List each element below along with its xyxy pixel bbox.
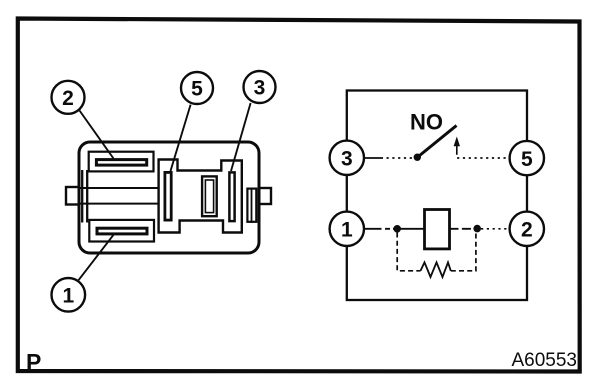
leader to terminal 2	[80, 111, 114, 159]
switch blade NO	[417, 126, 457, 159]
actuation arrow	[456, 143, 458, 153]
wire node1 to junction A	[365, 228, 382, 230]
wire coil to junction B	[450, 228, 478, 230]
center block outline	[159, 160, 242, 233]
relay body	[79, 142, 259, 253]
callout circle 3	[244, 71, 276, 103]
node 2	[510, 212, 544, 246]
center plate inner	[205, 180, 213, 213]
inner rib vertical lines	[81, 170, 83, 223]
switch pivot junction	[414, 154, 421, 161]
svg-text:A60553: A60553	[511, 350, 577, 371]
leader to terminal 1	[79, 235, 114, 280]
channel lines	[79, 187, 159, 189]
terminal 2 slot	[89, 152, 154, 172]
leader to terminal 5	[171, 105, 191, 171]
wire node3 to pivot	[365, 157, 384, 159]
resistor	[421, 262, 451, 277]
svg-text:5: 5	[191, 78, 203, 101]
wire resistor to junction B	[451, 232, 476, 270]
node 5	[510, 141, 544, 175]
terminal 3 slot	[229, 172, 234, 221]
svg-text:3: 3	[341, 148, 353, 171]
svg-text:2: 2	[62, 87, 74, 110]
wire arrow corner to node5	[457, 153, 510, 159]
wire junction A down to resistor	[397, 233, 420, 271]
callout circle 5	[181, 72, 213, 104]
junction A	[393, 225, 401, 233]
leader to terminal 3	[231, 103, 251, 171]
center plate outer	[202, 176, 217, 216]
svg-text:5: 5	[521, 148, 533, 171]
relay left tab	[66, 187, 79, 205]
terminal 2 blade	[96, 160, 146, 166]
callout circle 1	[52, 278, 86, 312]
svg-text:1: 1	[62, 285, 74, 308]
terminal 1 slot	[89, 220, 154, 242]
right inner latch	[247, 189, 256, 222]
svg-text:3: 3	[254, 77, 266, 100]
svg-text:P: P	[26, 349, 41, 375]
junction B	[473, 225, 481, 233]
wire junction A to coil	[397, 228, 424, 230]
terminal 5 slot	[165, 172, 171, 220]
node 1	[330, 212, 364, 246]
schematic loop rectangle	[347, 91, 527, 301]
callout circle 2	[52, 81, 85, 114]
relay coil	[425, 210, 450, 249]
svg-text:1: 1	[341, 219, 353, 242]
node 3	[330, 141, 364, 175]
svg-text:2: 2	[521, 219, 533, 242]
wire junction B to node2	[481, 228, 509, 230]
svg-text:NO: NO	[410, 109, 443, 134]
terminal 1 blade	[97, 228, 147, 234]
relay right tab	[258, 188, 271, 204]
